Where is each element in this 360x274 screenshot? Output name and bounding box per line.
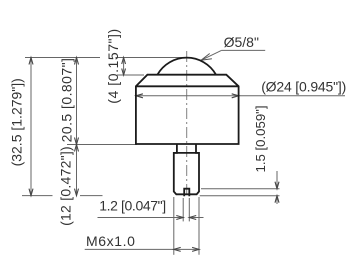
svg-text:20.5 [0.807"]: 20.5 [0.807"] [59,58,75,143]
svg-text:(Ø24 [0.945"]): (Ø24 [0.945"]) [261,79,346,95]
svg-text:1.2 [0.047"]: 1.2 [0.047"] [99,197,166,213]
svg-text:(12 [0.472"]): (12 [0.472"]) [58,146,74,226]
svg-text:M6x1.0: M6x1.0 [86,233,136,249]
svg-text:1.5 [0.059"]: 1.5 [0.059"] [253,105,268,172]
svg-text:(4 [0.157"]): (4 [0.157"]) [105,28,121,103]
svg-text:Ø5/8": Ø5/8" [224,34,259,50]
svg-text:(32.5 [1.279"]): (32.5 [1.279"]) [9,78,25,166]
